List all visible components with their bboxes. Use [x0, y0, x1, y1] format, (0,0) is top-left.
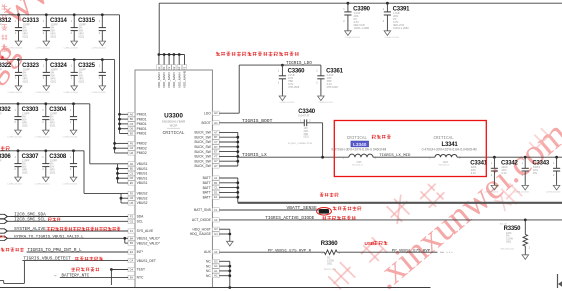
- junction C3343: [555, 156, 558, 159]
- svg-text:C-UHM-C0G-0201: C-UHM-C0G-0201: [345, 37, 360, 39]
- svg-text:C-UHM-C0G-0201: C-UHM-C0G-0201: [63, 183, 78, 185]
- junction bottom NC: [228, 286, 231, 289]
- svg-text:B7: B7: [214, 135, 218, 139]
- svg-text:A4: A4: [214, 250, 218, 254]
- svg-text:D5: D5: [130, 176, 134, 180]
- capacitor C3391: [383, 3, 410, 39]
- svg-text:C-UHM-C0G-0201: C-UHM-C0G-0201: [7, 136, 22, 138]
- svg-text:I2C0_SMC_SCL: I2C0_SMC_SCL: [14, 217, 46, 222]
- svg-text:BUCK_SW: BUCK_SW: [194, 155, 211, 159]
- junction C3390: [347, 2, 350, 5]
- red annotation battery power: [320, 193, 338, 197]
- junctions PMID1 bus: [118, 113, 121, 116]
- svg-text:VDD_MAIN: VDD_MAIN: [172, 72, 176, 88]
- svg-text:CRITICAL: CRITICAL: [162, 130, 184, 136]
- svg-text:CRITICAL: CRITICAL: [347, 137, 368, 141]
- capacitor C3312: [0, 15, 22, 50]
- svg-text:0201: 0201: [50, 172, 56, 175]
- svg-text:BUCK_SW: BUCK_SW: [194, 150, 211, 154]
- svg-text:C6: C6: [130, 122, 134, 126]
- svg-text:B1: B1: [214, 181, 218, 185]
- port HYDRA_TO_TIGRIS_VBUS1_VALID_L: [0, 236, 8, 240]
- svg-text:HDQ_HOST: HDQ_HOST: [192, 227, 210, 231]
- svg-text:0201: 0201: [23, 80, 29, 83]
- svg-text:C-UHM-C0G-0201: C-UHM-C0G-0201: [279, 102, 294, 104]
- net VBUS2 vertical: [83, 151, 85, 194]
- node battery sense connect box: [319, 209, 329, 214]
- resistor R3350: [500, 219, 531, 260]
- svg-text:TIGRIS_LX: TIGRIS_LX: [242, 152, 267, 158]
- capacitor C3302: [0, 104, 22, 139]
- svg-text:F5: F5: [130, 191, 134, 195]
- port I2C0_SMC_SDA: [0, 214, 8, 218]
- svg-text:E4: E4: [130, 275, 134, 279]
- capacitor bank row1 junctions: [17, 13, 20, 16]
- capacitor C3323: [22, 60, 50, 95]
- svg-text:VBUS2: VBUS2: [137, 196, 148, 200]
- svg-text:G4: G4: [214, 232, 218, 236]
- svg-text:F6: F6: [130, 141, 134, 145]
- node VDD_MAIN top bus: [159, 54, 185, 56]
- wire C3340 to LX: [322, 123, 324, 157]
- svg-text:BATT: BATT: [203, 181, 211, 185]
- svg-text:G5: G5: [130, 196, 134, 200]
- svg-text:0201: 0201: [79, 80, 85, 83]
- svg-text:A6: A6: [130, 112, 134, 116]
- svg-text:NTC: NTC: [137, 276, 144, 280]
- svg-text:C-UHM-C0G-0201: C-UHM-C0G-0201: [63, 92, 78, 94]
- svg-text:0201: 0201: [50, 125, 56, 128]
- svg-text:HYDRA_TO_TIGRIS_VBUS1_VALID_L: HYDRA_TO_TIGRIS_VBUS1_VALID_L: [14, 235, 84, 239]
- svg-text:BATT: BATT: [203, 176, 211, 180]
- net PMID2 vertical: [114, 60, 116, 153]
- red annotation top middle: [216, 52, 299, 56]
- svg-text:VBATT_SENSE: VBATT_SENSE: [287, 205, 318, 211]
- ground HDQ: [227, 241, 234, 246]
- net TIGRIS_LDO: [239, 64, 321, 66]
- red annotation partial left row4: [1, 146, 10, 150]
- VBUS1 bus: [117, 164, 119, 183]
- U3300 left pin stubs: [120, 113, 129, 115]
- svg-text:0.470UH-30%+20%-6.6A-0.046OHM: 0.470UH-30%+20%-6.6A-0.046OHM: [331, 147, 386, 151]
- svg-text:VBUS1: VBUS1: [137, 167, 148, 171]
- wire BATTERY_NTC: [60, 276, 128, 278]
- svg-text:VDD_MAIN5: VDD_MAIN5: [183, 70, 187, 88]
- svg-text:VBUS1: VBUS1: [137, 181, 148, 185]
- svg-text:PP_VBUS1_E75_RVP_R: PP_VBUS1_E75_RVP_R: [268, 249, 312, 253]
- capacitor C3308: [49, 151, 77, 186]
- svg-text:0201: 0201: [506, 241, 512, 244]
- NC bus: [229, 261, 231, 287]
- svg-text:C-UHM-C0G-0201: C-UHM-C0G-0201: [7, 183, 22, 185]
- svg-text:SDA: SDA: [137, 215, 145, 219]
- svg-text:SCL: SCL: [137, 220, 144, 224]
- svg-text:L3340: L3340: [353, 142, 367, 147]
- svg-text:E7: E7: [214, 150, 218, 154]
- svg-text:C-UHM-C0G-0201: C-UHM-C0G-0201: [63, 47, 78, 49]
- svg-text:VDD_MAIN: VDD_MAIN: [157, 72, 161, 88]
- svg-text:6.3V: 6.3V: [502, 172, 507, 175]
- svg-text:R3360: R3360: [321, 241, 339, 247]
- svg-text:ALT=NI: ALT=NI: [500, 222, 507, 225]
- svg-text:R.1: R.1: [0, 235, 6, 239]
- svg-text:G6: G6: [130, 146, 134, 150]
- svg-text:VDD_MAIN: VDD_MAIN: [162, 72, 166, 88]
- svg-text:C-UHM-C0G-0201: C-UHM-C0G-0201: [514, 192, 529, 194]
- svg-text:RES-NC-0201: RES-NC-0201: [324, 269, 336, 271]
- svg-text:10201-1.2MM: 10201-1.2MM: [354, 27, 369, 30]
- svg-text:CRITICAL: CRITICAL: [434, 137, 455, 141]
- svg-text:H3: H3: [214, 111, 218, 115]
- capacitor C3390: [343, 3, 370, 39]
- red highlight box: [334, 121, 486, 177]
- port SYSTEM_ALIVE: [0, 229, 8, 233]
- svg-text:NC: NC: [206, 274, 211, 278]
- wire VDD_MAIN feed vertical: [158, 3, 160, 54]
- wire VBUS_DETECT: [22, 260, 128, 262]
- svg-text:C2: C2: [167, 66, 171, 70]
- HDQ stubs: [219, 228, 230, 230]
- svg-text:0201: 0201: [79, 36, 85, 39]
- svg-text:F3: F3: [130, 215, 134, 219]
- svg-text:PMID1: PMID1: [137, 127, 147, 131]
- svg-text:D2: D2: [172, 66, 176, 70]
- capacitor bank row4 junctions: [17, 149, 20, 152]
- svg-text:C5: C5: [130, 171, 134, 175]
- svg-text:H6: H6: [130, 151, 134, 155]
- svg-text:BUCK_SW: BUCK_SW: [194, 145, 211, 149]
- port I2C0_SMC_SCL: [0, 219, 8, 223]
- svg-text:VBUS1: VBUS1: [137, 172, 148, 176]
- junction C3391: [386, 2, 389, 5]
- wire TEST vertical: [110, 270, 112, 286]
- capacitor C3343: [532, 157, 560, 193]
- svg-text:E3: E3: [130, 250, 134, 254]
- svg-text:D1: D1: [214, 190, 218, 194]
- net VBUS1 horizontal: [90, 163, 118, 165]
- svg-text:BUCK_SW: BUCK_SW: [194, 140, 211, 144]
- wire top pin stubs: [158, 55, 160, 65]
- svg-text:E2: E2: [177, 66, 181, 70]
- net VBATT rail: [238, 202, 562, 204]
- svg-text:VBUS2_VALID*: VBUS2_VALID*: [137, 241, 161, 245]
- svg-text:D3: D3: [214, 259, 218, 263]
- red annotation boost inductor: [372, 135, 391, 139]
- svg-text:6.3V: 6.3V: [471, 172, 476, 175]
- net TIGRIS_ACTIVE_DIODE: [219, 219, 562, 221]
- svg-text:ACT_DIODE: ACT_DIODE: [192, 218, 212, 222]
- svg-text:BUCK_SW: BUCK_SW: [194, 131, 211, 135]
- svg-text:C7: C7: [214, 140, 218, 144]
- capacitor C3342: [501, 157, 529, 193]
- svg-text:TIGRIS_LX_MID: TIGRIS_LX_MID: [379, 154, 411, 158]
- inductor L3341: [422, 137, 477, 166]
- svg-text:C3306: C3306: [0, 154, 11, 160]
- junction C3342: [524, 156, 527, 159]
- svg-text:VBUS1_VALID*: VBUS1_VALID*: [137, 237, 161, 241]
- BATT stubs: [219, 177, 238, 179]
- svg-text:VBUS1: VBUS1: [137, 176, 148, 180]
- svg-text:0TR-1608: 0TR-1608: [327, 86, 339, 89]
- svg-text:IND-0420-25: IND-0420-25: [352, 165, 363, 167]
- svg-text:30_NET_CONNECTION: 30_NET_CONNECTION: [288, 143, 312, 145]
- wire bottom long: [0, 287, 431, 289]
- wire SCL: [11, 220, 129, 222]
- wire VBUS1_VALID: [11, 237, 129, 239]
- capacitor C3341: [470, 157, 498, 193]
- svg-text:SYS_ALVE: SYS_ALVE: [137, 229, 154, 233]
- capacitor C3324: [50, 60, 78, 95]
- svg-text:H7: H7: [214, 164, 218, 168]
- svg-text:G1: G1: [214, 264, 218, 268]
- net VDD_MAIN top rail: [159, 2, 562, 4]
- svg-text:VDD_MAIN: VDD_MAIN: [167, 72, 171, 88]
- red annotation charge switch: [322, 216, 355, 220]
- net PMID2 wire row2: [0, 59, 115, 61]
- net VBATT_TIGRIS wire: [457, 156, 562, 158]
- capacitor C3325: [78, 60, 106, 95]
- svg-text:0.470UH-30%+20%-6.6A-0.046OHM: 0.470UH-30%+20%-6.6A-0.046OHM: [422, 147, 477, 151]
- svg-text:D6: D6: [130, 127, 134, 131]
- svg-text:G2: G2: [130, 219, 134, 223]
- svg-text:B3: B3: [130, 241, 134, 245]
- svg-text:VBUS2: VBUS2: [137, 192, 148, 196]
- inductor L3340: [331, 137, 386, 166]
- svg-text:BATT: BATT: [203, 195, 211, 199]
- svg-text:PMID1: PMID1: [137, 117, 147, 121]
- junction C3341: [493, 156, 496, 159]
- BUCK_SW bus: [237, 132, 239, 166]
- svg-text:PMID1: PMID1: [137, 113, 147, 117]
- svg-text:C1: C1: [214, 186, 218, 190]
- wire detect stub down: [23, 261, 25, 284]
- svg-text:0TR-1608: 0TR-1608: [288, 86, 300, 89]
- svg-text:LDO: LDO: [204, 111, 211, 115]
- svg-text:BUCK_SW: BUCK_SW: [194, 159, 211, 163]
- svg-text:WCSP: WCSP: [170, 124, 178, 127]
- svg-text:0.047UF: 0.047UF: [298, 114, 310, 118]
- red annotation partial left row2: [1, 56, 5, 60]
- svg-text:TEST: TEST: [137, 268, 145, 272]
- PMID2 stubs: [115, 142, 128, 144]
- svg-text:VBUS1: VBUS1: [137, 162, 148, 166]
- svg-text:0201: 0201: [23, 36, 29, 39]
- wire LDO vertical: [238, 65, 240, 113]
- svg-text:C-UHM-C0G-0201: C-UHM-C0G-0201: [91, 47, 106, 49]
- svg-text:B4: B4: [130, 236, 134, 240]
- svg-text:TIGRIS_VBUS_DETECT: TIGRIS_VBUS_DETECT: [23, 257, 71, 262]
- red annotation battery voltage detect: [333, 206, 361, 210]
- svg-text:25V: 25V: [533, 172, 538, 175]
- svg-text:NC: NC: [206, 264, 211, 268]
- net VBUS1 wire row3: [0, 103, 90, 105]
- svg-text:U3300: U3300: [164, 113, 183, 120]
- svg-text:D4: D4: [130, 268, 134, 272]
- svg-text:E1: E1: [214, 195, 218, 199]
- svg-text:USB: USB: [365, 241, 375, 246]
- svg-text:H1: H1: [214, 269, 218, 273]
- svg-text:TIGRIS_ACTIVE_DIODE: TIGRIS_ACTIVE_DIODE: [265, 216, 314, 221]
- svg-text:BATT_SNS: BATT_SNS: [194, 208, 212, 212]
- capacitor C3304: [49, 104, 77, 139]
- svg-text:SYSTEM_ALIVE: SYSTEM_ALIVE: [14, 227, 46, 232]
- wire BOOT: [219, 122, 303, 124]
- svg-text:IND-0420-25: IND-0420-25: [439, 165, 450, 167]
- svg-text:10201-1.2MM: 10201-1.2MM: [393, 27, 408, 30]
- capacitor C3313: [22, 15, 50, 50]
- capacitor C3361: [316, 65, 343, 104]
- svg-text:C-UHM-C0G-0201: C-UHM-C0G-0201: [8, 92, 23, 94]
- svg-text:0201: 0201: [51, 80, 57, 83]
- red annotation interrupt: [1, 248, 24, 252]
- capacitor C3306: [0, 151, 22, 186]
- svg-text:C-UHM-C0G-0201: C-UHM-C0G-0201: [546, 192, 561, 194]
- svg-text:PP_VBUS1_E75_RVP: PP_VBUS1_E75_RVP: [392, 249, 431, 253]
- svg-text:TIGRIS_LDO: TIGRIS_LDO: [286, 61, 312, 66]
- resistor R3360: [321, 241, 341, 271]
- capacitor C3315: [78, 15, 106, 50]
- svg-text:INT*: INT*: [137, 250, 144, 254]
- svg-text:PMID2: PMID2: [137, 142, 147, 146]
- svg-text:PMID1: PMID1: [137, 132, 147, 136]
- svg-text:C-UHM-C0G-0201: C-UHM-C0G-0201: [384, 37, 399, 39]
- svg-text:0201: 0201: [51, 36, 57, 39]
- net PMID1 wire row1: [0, 14, 120, 16]
- svg-text:0201: 0201: [22, 172, 28, 175]
- svg-text:0201: 0201: [304, 136, 310, 139]
- wire SYSTEM_ALIVE: [11, 230, 129, 232]
- capacitor C3360: [278, 65, 305, 104]
- svg-text:C-UHM-C0G-0201: C-UHM-C0G-0201: [35, 136, 50, 138]
- svg-text:BATTERY_NTC: BATTERY_NTC: [62, 274, 90, 278]
- svg-text:B6: B6: [130, 117, 134, 121]
- svg-text:TIGRIS_TO_PMU_INT_R_L: TIGRIS_TO_PMU_INT_R_L: [28, 248, 83, 253]
- svg-text:BUCK_SW: BUCK_SW: [194, 164, 211, 168]
- svg-text:VBUS2: VBUS2: [137, 201, 148, 205]
- svg-text:NC: NC: [206, 260, 211, 264]
- svg-text:PMID2: PMID2: [137, 151, 147, 155]
- svg-text:C-UHM-C0G-0201: C-UHM-C0G-0201: [318, 102, 333, 104]
- svg-text:F4: F4: [130, 229, 134, 233]
- wire BATT_SNS: [219, 209, 318, 211]
- svg-text:G7: G7: [214, 159, 218, 163]
- junction C3360: [281, 64, 284, 67]
- svg-text:A2: A2: [157, 66, 161, 70]
- svg-text:H5: H5: [130, 201, 134, 205]
- wire PP_VBUS1_E75_RVP: [337, 251, 437, 253]
- capacitor C3340: [288, 109, 323, 145]
- svg-text:BOOT: BOOT: [201, 121, 210, 125]
- svg-text:H4: H4: [214, 121, 218, 125]
- svg-text:H2: H2: [214, 274, 218, 278]
- svg-text:BATT: BATT: [203, 186, 211, 190]
- svg-text:BATT: BATT: [203, 191, 211, 195]
- svg-text:SN2500A1YBNR: SN2500A1YBNR: [162, 120, 186, 124]
- svg-text:VBUS1_DET: VBUS1_DET: [137, 259, 156, 263]
- U3300 left pins: [128, 112, 161, 279]
- svg-text:0201: 0201: [22, 125, 28, 128]
- svg-text:D7: D7: [214, 145, 218, 149]
- U3300 right pins: [190, 111, 220, 278]
- svg-text:A3: A3: [214, 218, 218, 222]
- svg-text:TIGRIS_BOOT: TIGRIS_BOOT: [242, 118, 273, 124]
- svg-text:E6: E6: [130, 132, 134, 136]
- svg-text:F1: F1: [214, 208, 218, 212]
- NC pin stubs: [219, 260, 230, 262]
- svg-text:C-UHM-C0G-0201: C-UHM-C0G-0201: [483, 192, 498, 194]
- capacitor bank row2 junctions: [17, 58, 20, 61]
- svg-text:VDD_MAIN: VDD_MAIN: [177, 72, 181, 88]
- VBUS2 bus: [120, 193, 122, 203]
- svg-text:F7: F7: [214, 154, 218, 158]
- svg-text:PMID1: PMID1: [137, 122, 147, 126]
- svg-text:C-UHM-C0G-0201: C-UHM-C0G-0201: [35, 183, 50, 185]
- BUCK_SW stubs: [219, 131, 238, 133]
- svg-text:A1: A1: [214, 176, 218, 180]
- svg-text:C-UHM-C0G-0201: C-UHM-C0G-0201: [35, 92, 50, 94]
- capacitor C3303: [22, 104, 50, 139]
- wire VBUS2_VALID tie: [124, 238, 126, 243]
- BATT bus: [237, 178, 239, 203]
- svg-text:G3: G3: [214, 227, 218, 231]
- svg-text:C-UHM-C0G-0201: C-UHM-C0G-0201: [35, 47, 50, 49]
- svg-text:A5: A5: [130, 162, 134, 166]
- svg-text:A7: A7: [214, 130, 218, 134]
- net PMID1 vertical bus: [119, 15, 121, 134]
- svg-text:C3302: C3302: [0, 107, 11, 113]
- svg-text:B5: B5: [130, 167, 134, 171]
- op-amp U3300 charging IC body: [135, 70, 212, 288]
- capacitor C3307: [22, 151, 50, 186]
- net TIGRIS_LX_MID: [373, 156, 435, 158]
- red annotation system alive: [47, 227, 121, 231]
- wire INT: [27, 251, 128, 253]
- svg-text:C-UHM-C0G-0201: C-UHM-C0G-0201: [91, 92, 106, 94]
- svg-text:0201: 0201: [327, 262, 333, 265]
- svg-text:E5: E5: [130, 181, 134, 185]
- svg-text:PMID2: PMID2: [137, 146, 147, 150]
- net VBUS2 horizontal: [84, 192, 121, 194]
- U3300 top pins VDD_MAIN: [157, 65, 187, 88]
- svg-text:C4: C4: [130, 259, 134, 263]
- capacitor bank row3 junctions: [17, 102, 20, 105]
- wire AUX PP_VBUS1_E75_RVP_R: [219, 251, 324, 253]
- svg-text:RES-100K-0201: RES-100K-0201: [501, 248, 515, 250]
- svg-text:C-UHM-C0G-0201: C-UHM-C0G-0201: [8, 47, 23, 49]
- svg-text:HDQ_GAUGE: HDQ_GAUGE: [190, 232, 212, 236]
- wire SDA: [11, 216, 129, 218]
- red annotation battery temp: [71, 267, 99, 271]
- capacitor C3322: [0, 60, 22, 95]
- mouse cursor: [558, 274, 562, 288]
- capacitor C3314: [50, 15, 78, 50]
- svg-text:C-UHM-C0G-0201: C-UHM-C0G-0201: [63, 136, 78, 138]
- svg-text:B2: B2: [162, 66, 166, 70]
- junction LX C3340: [321, 156, 324, 159]
- red annotation I2C bus: [48, 218, 60, 222]
- svg-text:BUCK_SW: BUCK_SW: [194, 135, 211, 139]
- svg-text:NC: NC: [206, 269, 211, 273]
- net VBUS2 wire row4: [0, 150, 84, 152]
- red annotation USB detect: [75, 257, 103, 261]
- net TIGRIS_LX: [238, 156, 349, 158]
- HDQ bus: [229, 229, 231, 241]
- wire TEST: [110, 268, 113, 271]
- svg-text:AUX: AUX: [204, 250, 212, 254]
- wire LDO stub: [219, 112, 239, 114]
- net VBUS1 vertical: [89, 104, 91, 164]
